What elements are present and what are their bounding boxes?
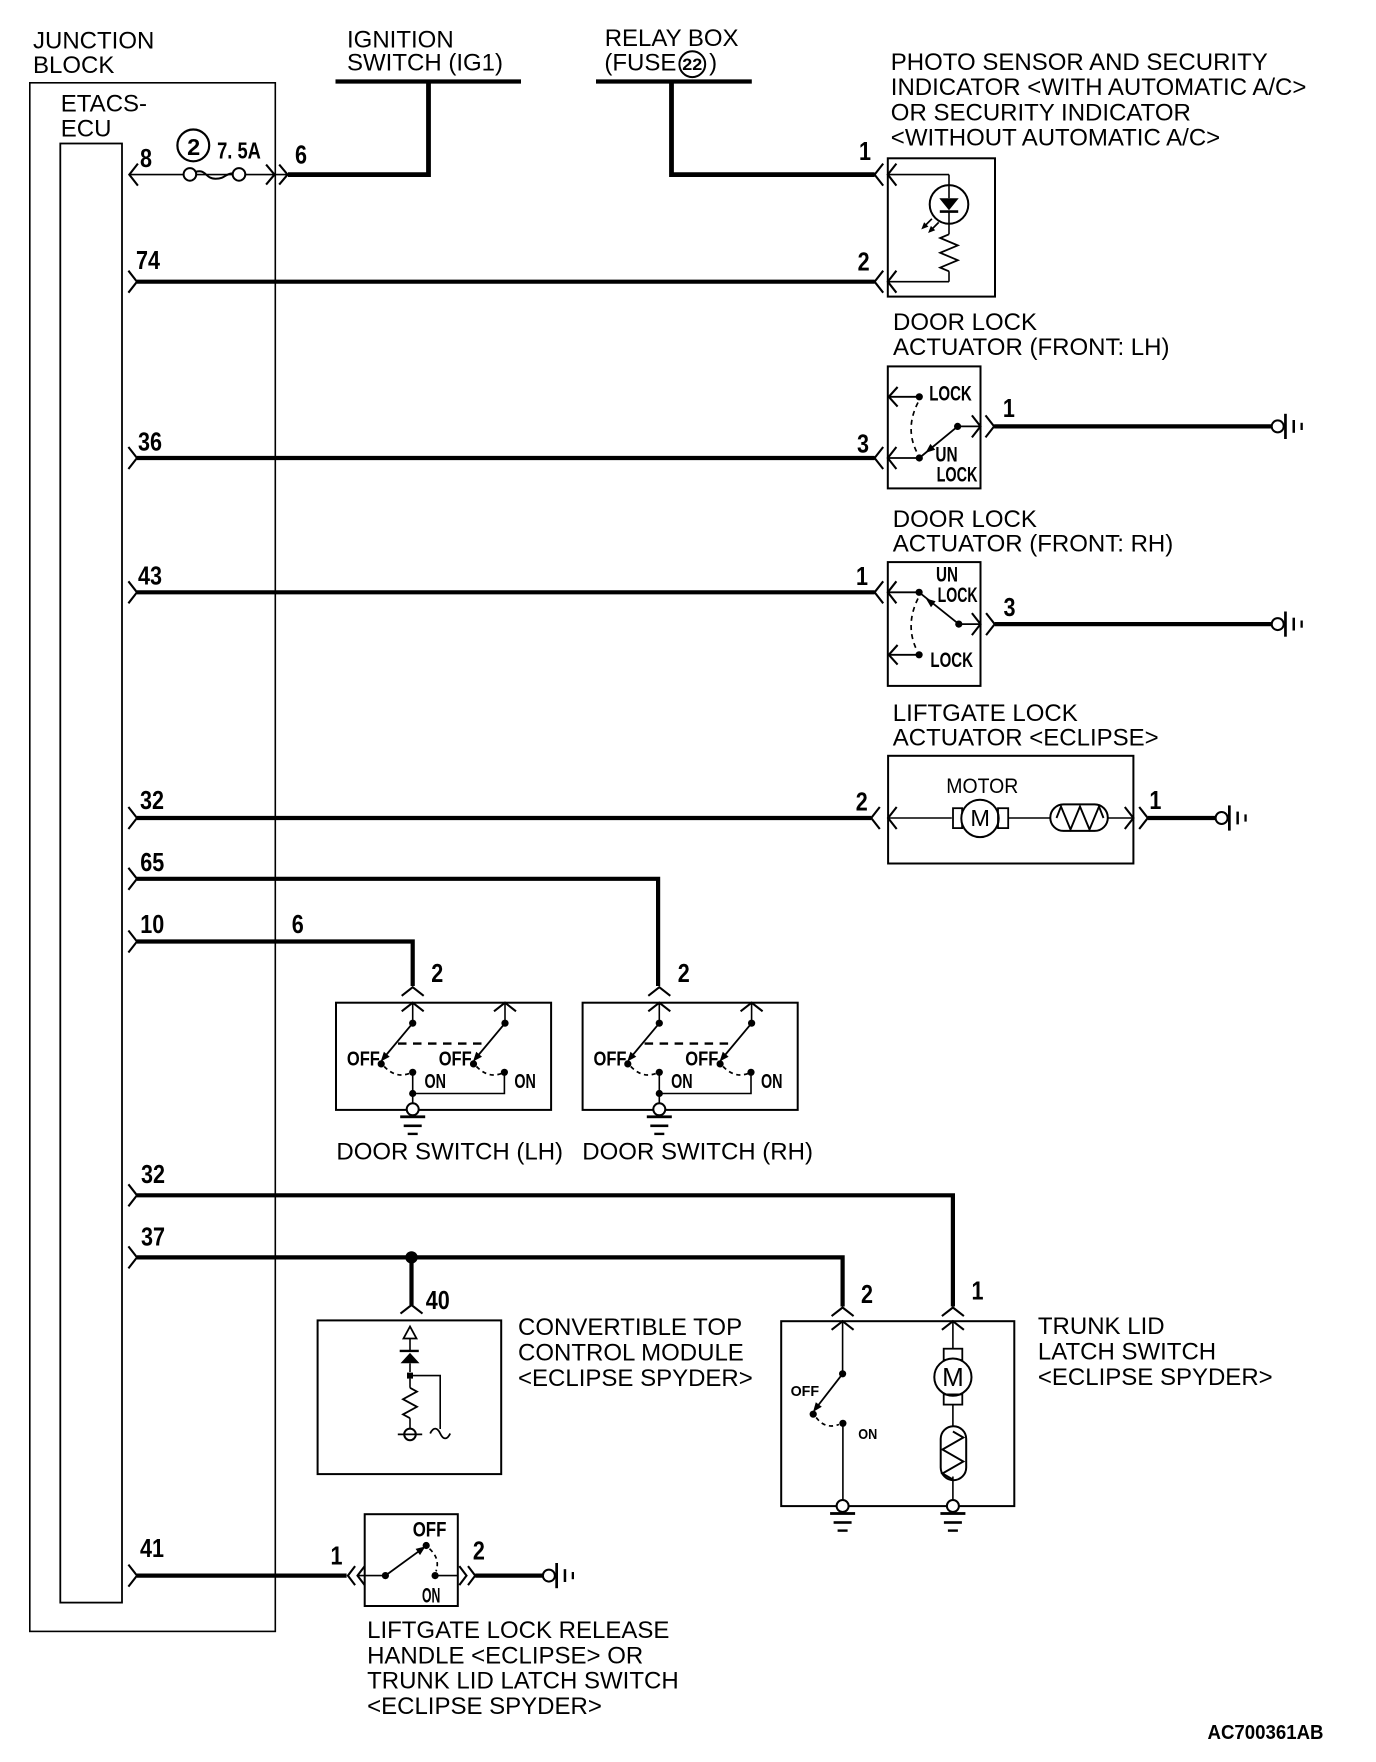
svg-text:OFF: OFF bbox=[413, 1518, 447, 1541]
RH actuator pin 1 label bbox=[856, 561, 868, 591]
photo sensor and security indicator label bbox=[891, 49, 1307, 152]
svg-text:32: 32 bbox=[140, 785, 164, 815]
document number AC700361AB bbox=[1208, 1722, 1324, 1744]
trunk switch OFF label bbox=[791, 1383, 820, 1400]
svg-text:PHOTO SENSOR AND SECURITY: PHOTO SENSOR AND SECURITY bbox=[891, 49, 1268, 76]
handle switch OFF label bbox=[413, 1518, 447, 1541]
door switch (RH) right switch bbox=[717, 1003, 763, 1068]
pin 40 label bbox=[426, 1285, 450, 1315]
svg-text:1: 1 bbox=[972, 1275, 984, 1305]
door switch (LH) pin 2 connector bbox=[402, 987, 424, 1011]
door switch (LH) pin 2 label bbox=[431, 958, 443, 988]
RH actuator LOCK label bbox=[930, 649, 973, 672]
door switch (RH) left OFF label bbox=[594, 1049, 627, 1071]
LH actuator switch lever bbox=[916, 423, 962, 462]
svg-text:2: 2 bbox=[858, 247, 870, 277]
trunk switch pin 1 label bbox=[972, 1275, 984, 1305]
liftgate lock release handle label bbox=[367, 1617, 679, 1720]
wire liftgate actuator pin 1 to body ground bbox=[1148, 816, 1216, 820]
svg-text:<WITHOUT AUTOMATIC A/C>: <WITHOUT AUTOMATIC A/C> bbox=[891, 125, 1220, 152]
svg-text:1: 1 bbox=[1149, 785, 1161, 815]
svg-text:M: M bbox=[970, 805, 990, 831]
handle switch bbox=[358, 1542, 430, 1579]
pin 74 label bbox=[136, 245, 160, 275]
liftgate actuator pin 1 connector bbox=[1125, 807, 1148, 829]
svg-text:ACTUATOR (FRONT: LH): ACTUATOR (FRONT: LH) bbox=[893, 334, 1169, 361]
RH actuator pin 1 connector bbox=[875, 581, 920, 603]
door switch (RH) right OFF label bbox=[685, 1049, 718, 1071]
svg-text:ON: ON bbox=[514, 1071, 536, 1093]
svg-text:OFF: OFF bbox=[791, 1383, 820, 1400]
svg-text:LIFTGATE LOCK RELEASE: LIFTGATE LOCK RELEASE bbox=[367, 1617, 669, 1644]
door switch LH label bbox=[336, 1139, 563, 1166]
junction block label bbox=[33, 28, 154, 80]
wire 10 to door switch LH bbox=[137, 942, 413, 987]
handle switch ON contact bbox=[432, 1572, 458, 1579]
door switch (LH) left OFF label bbox=[347, 1049, 380, 1071]
earth ground for door switch (LH) bbox=[400, 1103, 425, 1135]
svg-text:40: 40 bbox=[426, 1285, 450, 1315]
svg-text:ON: ON bbox=[761, 1071, 783, 1093]
photo sensor pin 2 connector bbox=[875, 271, 897, 293]
earth ground for trunk switch bbox=[830, 1500, 855, 1532]
fuse 2 7.5A bbox=[129, 164, 288, 186]
earth ground for trunk motor bbox=[940, 1500, 965, 1532]
ETACS-ECU label bbox=[61, 91, 147, 143]
relay box (FUSE 22) label bbox=[604, 25, 738, 77]
photo sensor pin 1 connector bbox=[875, 164, 897, 186]
LH actuator pin 1 label bbox=[1003, 393, 1015, 423]
ETACS pin 74 connector bbox=[128, 271, 137, 293]
trunk lid latch switch label bbox=[1038, 1313, 1273, 1391]
svg-text:6: 6 bbox=[295, 140, 307, 170]
pin 6 label bbox=[295, 140, 307, 170]
pin 32 label (liftgate) bbox=[140, 785, 164, 815]
svg-text:65: 65 bbox=[140, 847, 164, 877]
svg-text:LOCK: LOCK bbox=[938, 584, 978, 607]
resistor in module bbox=[403, 1379, 417, 1429]
LH actuator position dashed arc bbox=[911, 403, 918, 452]
pin 65 label bbox=[140, 847, 164, 877]
ring ground terminal in module bbox=[398, 1429, 422, 1441]
door switch (RH) left switch bbox=[624, 1003, 663, 1068]
door switch (LH) right ON label bbox=[514, 1071, 536, 1093]
fuse rating label 7.5A bbox=[217, 137, 261, 163]
pin 32 label (trunk) bbox=[141, 1159, 165, 1189]
liftgate lock actuator label bbox=[893, 700, 1159, 752]
svg-text:CONVERTIBLE TOP: CONVERTIBLE TOP bbox=[518, 1314, 742, 1341]
svg-text:AC700361AB: AC700361AB bbox=[1208, 1722, 1324, 1744]
liftgate actuator resistor capsule bbox=[1009, 804, 1134, 831]
svg-text:2: 2 bbox=[187, 134, 200, 160]
branch to squiggle terminal in module bbox=[413, 1376, 450, 1439]
door switch (LH) right switch bbox=[470, 1003, 516, 1068]
svg-text:(FUSE: (FUSE bbox=[604, 49, 676, 76]
liftgate lock release handle box bbox=[365, 1514, 458, 1606]
svg-text:<ECLIPSE SPYDER>: <ECLIPSE SPYDER> bbox=[1038, 1364, 1273, 1391]
svg-text:OFF: OFF bbox=[685, 1049, 718, 1071]
ETACS pin 36 connector bbox=[128, 447, 137, 469]
svg-text:1: 1 bbox=[856, 561, 868, 591]
svg-text:ON: ON bbox=[425, 1071, 447, 1093]
svg-text:BLOCK: BLOCK bbox=[33, 52, 114, 79]
wire 65 to door switch RH bbox=[137, 879, 658, 986]
pin 41 label bbox=[140, 1533, 164, 1563]
svg-text:74: 74 bbox=[136, 245, 160, 275]
photo sensor box bbox=[888, 158, 995, 296]
svg-text:3: 3 bbox=[1004, 592, 1016, 622]
LH actuator LOCK label bbox=[929, 383, 972, 406]
door switch (LH) ground wire bbox=[412, 1094, 414, 1105]
svg-text:3: 3 bbox=[857, 428, 869, 458]
junction node on wire 37 bbox=[405, 1251, 417, 1263]
svg-text:1: 1 bbox=[331, 1540, 343, 1570]
liftgate actuator motor bbox=[888, 800, 1008, 837]
svg-text:41: 41 bbox=[140, 1533, 164, 1563]
RH actuator UN LOCK label bbox=[936, 564, 978, 607]
ignition switch bus bar bbox=[336, 79, 522, 83]
trunk switch pin 1 connector bbox=[942, 1308, 964, 1330]
branch wire 37 to convertible top module pin 40 bbox=[409, 1256, 413, 1305]
door switch (LH) right dashed arc bbox=[477, 1067, 502, 1075]
wire 37 to trunk lid latch switch pin 2 bbox=[137, 1257, 843, 1306]
svg-text:36: 36 bbox=[138, 426, 162, 456]
wire handle pin 2 to body ground bbox=[475, 1573, 543, 1577]
svg-text:2: 2 bbox=[473, 1536, 485, 1566]
handle pin 2 connector bbox=[459, 1566, 475, 1585]
svg-text:OFF: OFF bbox=[439, 1049, 472, 1071]
door switch (RH) pin 2 connector bbox=[648, 987, 670, 1011]
trunk latch motor bbox=[934, 1321, 971, 1404]
svg-text:43: 43 bbox=[138, 561, 162, 591]
LH actuator UN LOCK label bbox=[935, 444, 977, 487]
wire 36 to LH actuator pin 3 bbox=[137, 456, 875, 460]
zener diode pair in module bbox=[400, 1327, 420, 1379]
junction block pin 6 label (wire 10) bbox=[292, 909, 304, 939]
svg-text:DOOR SWITCH (RH): DOOR SWITCH (RH) bbox=[582, 1139, 813, 1166]
svg-text:JUNCTION: JUNCTION bbox=[33, 28, 154, 55]
svg-text:<ECLIPSE SPYDER>: <ECLIPSE SPYDER> bbox=[367, 1693, 602, 1720]
liftgate actuator pin 2 label bbox=[856, 787, 868, 817]
svg-text:1: 1 bbox=[859, 136, 871, 166]
trunk latch resistor capsule bbox=[941, 1405, 967, 1501]
svg-text:DOOR LOCK: DOOR LOCK bbox=[893, 506, 1037, 533]
door switch (RH) mechanical link bbox=[645, 1042, 734, 1044]
svg-text:ETACS-: ETACS- bbox=[61, 91, 147, 118]
ETACS pin 10 connector bbox=[128, 931, 137, 953]
door switch (RH) right ON contact bbox=[659, 1069, 754, 1094]
svg-text:MOTOR: MOTOR bbox=[946, 775, 1018, 798]
RH actuator LOCK contact bbox=[889, 645, 923, 665]
body ground for LH actuator bbox=[1272, 414, 1303, 439]
LH actuator LOCK contact bbox=[889, 387, 923, 407]
svg-text:LIFTGATE LOCK: LIFTGATE LOCK bbox=[893, 700, 1078, 727]
photo sensor pin 2 label bbox=[858, 247, 870, 277]
convertible top control module label bbox=[518, 1314, 753, 1392]
junction block outline bbox=[30, 83, 275, 1632]
svg-text:<ECLIPSE SPYDER>: <ECLIPSE SPYDER> bbox=[518, 1365, 753, 1392]
svg-text:OR SECURITY INDICATOR: OR SECURITY INDICATOR bbox=[891, 99, 1191, 126]
trunk switch pin 2 label bbox=[861, 1279, 873, 1309]
svg-text:LATCH SWITCH: LATCH SWITCH bbox=[1038, 1338, 1216, 1365]
svg-text:32: 32 bbox=[141, 1159, 165, 1189]
svg-text:LOCK: LOCK bbox=[929, 383, 972, 406]
ETACS pin 43 connector bbox=[128, 581, 137, 603]
svg-text:2: 2 bbox=[861, 1279, 873, 1309]
pin 37 label bbox=[141, 1221, 165, 1251]
door switch (RH) box bbox=[583, 1003, 798, 1110]
wire 41 to liftgate lock release handle bbox=[137, 1573, 347, 1577]
svg-text:DOOR LOCK: DOOR LOCK bbox=[893, 309, 1037, 336]
trunk switch dashed arc bbox=[816, 1418, 839, 1426]
LH actuator pin 1 connector bbox=[958, 415, 995, 437]
pin 36 label bbox=[138, 426, 162, 456]
svg-text:37: 37 bbox=[141, 1221, 165, 1251]
svg-text:ON: ON bbox=[422, 1584, 440, 1607]
svg-text:DOOR SWITCH (LH): DOOR SWITCH (LH) bbox=[336, 1139, 563, 1166]
trunk switch pin 2 connector bbox=[832, 1308, 854, 1330]
svg-text:7. 5A: 7. 5A bbox=[217, 137, 261, 163]
door switch (RH) right ON label bbox=[761, 1071, 783, 1093]
LH actuator pin 3 label bbox=[857, 428, 869, 458]
svg-text:ON: ON bbox=[671, 1071, 693, 1093]
door switch (RH) left ON label bbox=[671, 1071, 693, 1093]
resistor in photo sensor bbox=[889, 234, 958, 281]
body ground for handle bbox=[543, 1563, 574, 1588]
liftgate lock actuator box bbox=[888, 756, 1133, 864]
convertible top module pin 40 connector bbox=[401, 1305, 423, 1314]
wire 32 to liftgate actuator pin 2 bbox=[137, 816, 871, 820]
svg-text:OFF: OFF bbox=[347, 1049, 380, 1071]
svg-text:CONTROL MODULE: CONTROL MODULE bbox=[518, 1339, 744, 1366]
door switch (RH) left ON contact bbox=[656, 1069, 663, 1097]
door switch (LH) mechanical link bbox=[398, 1042, 487, 1044]
svg-text:1: 1 bbox=[1003, 393, 1015, 423]
svg-text:INDICATOR <WITH AUTOMATIC A/C>: INDICATOR <WITH AUTOMATIC A/C> bbox=[891, 74, 1307, 101]
svg-text:22: 22 bbox=[682, 56, 702, 74]
ETACS pin 32 connector (liftgate) bbox=[128, 807, 137, 829]
svg-text:TRUNK LID: TRUNK LID bbox=[1038, 1313, 1165, 1340]
liftgate actuator pin 1 label bbox=[1149, 785, 1161, 815]
pin 10 label bbox=[140, 909, 164, 939]
LH actuator pin 3 connector bbox=[875, 447, 920, 469]
ETACS pin 37 connector bbox=[128, 1246, 137, 1268]
door switch (RH) pin 2 label bbox=[678, 958, 690, 988]
RH actuator pin 3 connector bbox=[959, 613, 995, 635]
svg-text:ACTUATOR <ECLIPSE>: ACTUATOR <ECLIPSE> bbox=[893, 725, 1159, 752]
door switch (LH) left ON contact bbox=[409, 1069, 416, 1097]
door switch (LH) box bbox=[336, 1003, 551, 1110]
svg-text:2: 2 bbox=[856, 787, 868, 817]
LED light emission arrows bbox=[921, 219, 938, 233]
svg-text:): ) bbox=[709, 49, 717, 76]
trunk latch switch contact bbox=[810, 1321, 847, 1418]
door switch (LH) right OFF label bbox=[439, 1049, 472, 1071]
RH actuator switch lever bbox=[916, 589, 963, 628]
ETACS-ECU connector box bbox=[60, 144, 122, 1603]
wire from ignition switch to junction block pin 6 bbox=[288, 82, 429, 175]
convertible top control module box bbox=[318, 1320, 502, 1474]
relay box bus bar bbox=[596, 79, 752, 83]
door switch (LH) left ON label bbox=[425, 1071, 447, 1093]
svg-text:6: 6 bbox=[292, 909, 304, 939]
ETACS pin 32 connector (trunk) bbox=[128, 1184, 137, 1206]
svg-text:2: 2 bbox=[678, 958, 690, 988]
fuse number circle 2 bbox=[177, 130, 209, 162]
handle pin 1 connector bbox=[348, 1566, 365, 1585]
pin 8 label bbox=[140, 143, 152, 173]
door lock actuator RH box bbox=[888, 562, 981, 686]
MOTOR label bbox=[946, 775, 1018, 798]
ETACS pin 41 connector bbox=[128, 1565, 137, 1587]
earth ground for door switch (RH) bbox=[647, 1103, 672, 1135]
ignition switch (IG1) label bbox=[347, 26, 503, 76]
door switch RH label bbox=[582, 1139, 813, 1166]
pin 43 label bbox=[138, 561, 162, 591]
door lock actuator front RH label bbox=[893, 506, 1173, 558]
trunk switch ON contact bbox=[839, 1420, 846, 1500]
liftgate actuator pin 2 connector bbox=[871, 807, 897, 829]
wire RH actuator pin 3 to body ground bbox=[995, 622, 1272, 626]
LED security indicator bbox=[889, 175, 969, 235]
door switch (RH) ground wire bbox=[658, 1094, 660, 1105]
svg-text:HANDLE <ECLIPSE> OR: HANDLE <ECLIPSE> OR bbox=[367, 1643, 643, 1670]
handle pin 2 label bbox=[473, 1536, 485, 1566]
body ground for RH actuator bbox=[1272, 612, 1303, 637]
door switch (LH) right ON contact bbox=[413, 1069, 508, 1094]
trunk switch ON label bbox=[858, 1426, 877, 1443]
door lock actuator LH box bbox=[888, 366, 981, 488]
RH actuator position dashed arc bbox=[911, 599, 918, 650]
svg-text:ACTUATOR (FRONT: RH): ACTUATOR (FRONT: RH) bbox=[893, 531, 1173, 558]
svg-text:RELAY BOX: RELAY BOX bbox=[605, 25, 739, 52]
svg-text:ON: ON bbox=[858, 1426, 877, 1443]
svg-text:8: 8 bbox=[140, 143, 152, 173]
wire 43 to RH actuator pin 1 bbox=[137, 590, 875, 594]
handle switch ON label bbox=[422, 1584, 440, 1607]
ETACS pin 65 connector bbox=[128, 868, 137, 890]
door switch (RH) left dashed arc bbox=[631, 1067, 656, 1075]
svg-text:OFF: OFF bbox=[594, 1049, 627, 1071]
wire LH actuator pin 1 to body ground bbox=[994, 424, 1272, 428]
svg-text:SWITCH (IG1): SWITCH (IG1) bbox=[347, 50, 503, 77]
photo sensor pin 1 label bbox=[859, 136, 871, 166]
wire 74 to photo sensor pin 2 bbox=[137, 280, 875, 284]
door switch (RH) right dashed arc bbox=[723, 1067, 748, 1075]
handle switch dashed arc bbox=[430, 1549, 438, 1572]
svg-text:ECU: ECU bbox=[61, 116, 112, 143]
svg-text:M: M bbox=[942, 1362, 964, 1392]
svg-text:10: 10 bbox=[140, 909, 164, 939]
svg-text:LOCK: LOCK bbox=[930, 649, 973, 672]
svg-text:LOCK: LOCK bbox=[937, 464, 978, 487]
wire from relay box to photo sensor pin 1 bbox=[672, 82, 875, 175]
wire 32 to trunk lid latch switch pin 1 bbox=[137, 1195, 953, 1306]
RH actuator pin 3 label bbox=[1004, 592, 1016, 622]
body ground for liftgate actuator bbox=[1216, 805, 1247, 830]
door lock actuator front LH label bbox=[893, 309, 1169, 361]
trunk lid latch switch box bbox=[781, 1321, 1014, 1506]
svg-text:2: 2 bbox=[431, 958, 443, 988]
svg-text:TRUNK LID LATCH SWITCH: TRUNK LID LATCH SWITCH bbox=[367, 1667, 679, 1694]
handle pin 1 label bbox=[331, 1540, 343, 1570]
door switch (LH) left switch bbox=[378, 1003, 417, 1068]
door switch (LH) left dashed arc bbox=[384, 1067, 409, 1075]
